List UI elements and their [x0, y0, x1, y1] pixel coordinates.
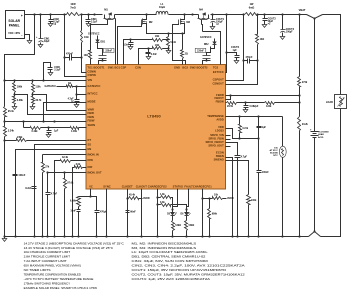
svg-text:32.4k: 32.4k: [62, 156, 69, 159]
svg-text:NTC: NTC: [273, 155, 278, 157]
svg-text:BOOST1: BOOST1: [93, 65, 105, 69]
wire FAULT: [185, 189, 188, 211]
svg-text:EXTVCC: EXTVCC: [213, 70, 224, 74]
svg-text:45.4k: 45.4k: [129, 194, 136, 197]
svg-text:SRVO_FBOUT: SRVO_FBOUT: [205, 140, 224, 144]
svg-text:100k: 100k: [251, 199, 257, 202]
wire to load: [323, 15, 341, 95]
wire EXTVCC: [225, 15, 227, 73]
wire VC: [89, 189, 91, 198]
svg-text:M1, M2: INFINEON BSC026N04LS: M1, M2: INFINEON BSC026N04LS: [132, 241, 197, 245]
svg-text:CSN: CSN: [135, 65, 141, 69]
wire VBB line: [3, 79, 86, 81]
wire FBOUT stub: [226, 94, 232, 99]
svg-text:INTVCC: INTVCC: [88, 91, 98, 95]
wire top bus after shunt: [63, 13, 102, 15]
capacitor 1uF fbin: [46, 126, 59, 137]
resistor 549R d6: [185, 216, 195, 237]
resistor 97.6k: [64, 173, 74, 237]
svg-text:CSP: CSP: [121, 65, 127, 69]
svg-text:LOAD: LOAD: [326, 101, 333, 104]
node VBAT: [299, 8, 323, 20]
svg-text:SRVO_FBIN: SRVO_FBIN: [208, 136, 223, 140]
capacitor 470nF input sense: [63, 53, 82, 61]
capacitor COUT2 10uF x2: [262, 15, 276, 28]
svg-text:GATEVCC: GATEVCC: [44, 85, 56, 88]
svg-text:909k: 909k: [212, 213, 218, 216]
svg-text:AVDD: AVDD: [227, 197, 234, 200]
resistor 6.49k vc: [70, 197, 90, 207]
svg-text:97.6k: 97.6k: [67, 182, 74, 185]
svg-text:FBIW: FBIW: [88, 119, 95, 123]
resistor 45.4k clkdet: [128, 194, 150, 200]
transistor M2: [142, 15, 154, 27]
resistor 26.5k FBOW: [226, 102, 246, 109]
svg-text:33µF: 33µF: [44, 40, 50, 43]
LED D5: [167, 210, 176, 216]
svg-text:6mΩ: 6mΩ: [249, 6, 255, 9]
svg-text:5mΩ: 5mΩ: [170, 41, 175, 44]
wire SWENO: [226, 161, 249, 195]
svg-text:10nF: 10nF: [70, 210, 76, 213]
IC right pin labels: [205, 70, 224, 162]
svg-text:549Ω: 549Ω: [175, 224, 181, 227]
svg-text:4.7µF: 4.7µF: [241, 156, 248, 159]
wire VOUT bus after shunt: [256, 13, 306, 15]
svg-text:6.49k: 6.49k: [32, 130, 39, 133]
wire SWEN: [226, 158, 233, 237]
resistor 23.2k: [298, 117, 309, 237]
capacitor CIN3 2.2uF: [86, 15, 98, 27]
svg-text:4Ω: 4Ω: [68, 82, 71, 85]
svg-text:26.5k: 26.5k: [227, 105, 234, 108]
svg-text:SW1: SW1: [108, 65, 114, 69]
svg-text:FBIR: FBIR: [88, 111, 94, 115]
svg-text:CSPOUT: CSPOUT: [213, 78, 225, 82]
svg-text:NO TIMER LIMITS: NO TIMER LIMITS: [24, 268, 51, 272]
wire VIN to left rail: [5, 15, 35, 81]
capacitor 0.082uF: [243, 101, 259, 112]
resistor 4R gatevcc: [44, 82, 86, 88]
wire CSNOUT: [226, 61, 258, 85]
svg-text:36.7k: 36.7k: [35, 99, 42, 102]
svg-text:+: +: [21, 14, 23, 18]
svg-text:10Ω: 10Ω: [84, 55, 89, 57]
svg-text:GATEVCC: GATEVCC: [88, 84, 101, 88]
wire SS: [35, 145, 87, 237]
wire divider mid: [298, 87, 300, 117]
diode DB1 with GATEVCC: [88, 33, 106, 56]
resistor 2R: [181, 34, 188, 65]
battery flooded lead acid: [310, 19, 329, 232]
svg-text:6.38k: 6.38k: [17, 99, 24, 102]
svg-text:CHARGECFG1: CHARGECFG1: [193, 184, 212, 188]
wire CHARGECFG2: [156, 189, 158, 237]
resistor 6.49k: [24, 122, 49, 134]
capacitor COUT4 1uF: [227, 46, 240, 63]
svg-text:1µF: 1µF: [262, 126, 267, 129]
svg-text:CSNIN: CSNIN: [88, 69, 96, 73]
svg-text:SW2: SW2: [190, 65, 196, 69]
svg-text:ECON: ECON: [216, 151, 224, 155]
svg-text:CSNOUT: CSNOUT: [212, 81, 224, 85]
svg-text:GATEVCC: GATEVCC: [88, 33, 100, 36]
wire VINR tap: [33, 95, 87, 111]
resistor 10k avdd: [203, 194, 234, 200]
svg-text:1µF: 1µF: [54, 130, 59, 133]
capacitor 220nF boost2: [195, 47, 210, 65]
svg-text:GATEVCC: GATEVCC: [200, 36, 212, 39]
svg-text:GND: GND: [174, 65, 180, 69]
note block left: [24, 241, 125, 290]
wire IMON_OUT: [46, 171, 86, 173]
resistor 100k SWENO: [247, 195, 257, 237]
svg-text:M1: M1: [104, 8, 108, 12]
wire load return: [321, 109, 341, 237]
svg-text:COUT4: 1µF, 25V AVX 12063C105K: COUT4: 1µF, 25V AVX 12063C105KAT2A: [132, 277, 212, 281]
svg-text:FAULT: FAULT: [184, 184, 193, 188]
svg-text:2.8A TRICKLE CURRENT LIMIT: 2.8A TRICKLE CURRENT LIMIT: [24, 255, 71, 259]
svg-text:CIN2, CIN3, CIN4: 2.2µF, 100V,: CIN2, CIN3, CIN4: 2.2µF, 100V, AVX 12101…: [132, 264, 247, 268]
resistor output shunt 6mOhm: [245, 3, 259, 16]
capacitor COUT3 100uF: [280, 15, 294, 40]
resistor 32.4k IOW: [55, 156, 87, 236]
capacitor 66nF: [126, 211, 137, 214]
svg-text:CSPIN: CSPIN: [88, 73, 96, 77]
svg-text:11.5k: 11.5k: [242, 127, 249, 130]
wire IMON_IN: [43, 154, 87, 156]
svg-text:3.3nF: 3.3nF: [151, 54, 158, 56]
IC left pin labels: [88, 69, 103, 174]
resistor 909k: [208, 199, 218, 237]
svg-text:10Ω: 10Ω: [155, 45, 160, 47]
svg-text:95.1k: 95.1k: [8, 110, 15, 113]
wire TEMPSENSE: [226, 115, 283, 117]
capacitor 100nF: [257, 139, 270, 237]
svg-text:IOR: IOR: [88, 165, 93, 169]
capacitor 220nF boost1: [99, 48, 115, 64]
svg-text:4.7nF: 4.7nF: [51, 193, 58, 196]
svg-text:TG1: TG1: [87, 65, 93, 69]
svg-text:RT: RT: [88, 138, 92, 142]
svg-text:23.2k: 23.2k: [302, 123, 309, 126]
transistor M4: [198, 8, 210, 20]
wire SW1 segment: [115, 13, 157, 15]
wire CLKOUT: [141, 189, 143, 237]
wire servo stubs: [226, 136, 231, 147]
svg-text:549Ω: 549Ω: [189, 224, 195, 227]
resistor 36.7k: [30, 97, 42, 110]
svg-text:COUT1: 150µF, 35V NICHICON UPJ: COUT1: 150µF, 35V NICHICON UPJ1V151MPD6T…: [132, 268, 228, 272]
svg-text:CLKOUT: CLKOUT: [136, 184, 148, 188]
junction dots ground bus: [3, 235, 300, 237]
solar panel source: [6, 11, 25, 39]
capacitor 8.2nF ss: [25, 187, 36, 191]
svg-text:M3: M3: [186, 20, 190, 24]
resistor 5mOhm current sense: [166, 34, 176, 54]
svg-text:220nF: 220nF: [105, 51, 112, 53]
svg-text:CLKDET: CLKDET: [122, 184, 133, 188]
wire BG2 gate M3: [173, 24, 186, 65]
capacitor 470nF output sense: [242, 15, 258, 64]
svg-text:LT8490: LT8490: [147, 114, 161, 119]
IC U1 LT8490 charge controller body: [86, 65, 226, 190]
resistor input shunt 7mOhm: [67, 3, 81, 16]
svg-text:DB1: DB1: [101, 41, 106, 43]
svg-text:220nF: 220nF: [197, 51, 204, 53]
resistor 10R CSN filter: [139, 45, 169, 65]
svg-text:3.3nF: 3.3nF: [123, 44, 130, 46]
svg-text:M3, M4: INFINEON BSC046N04LS: M3, M4: INFINEON BSC046N04LS: [132, 246, 197, 250]
resistor 10R input sense filter: [81, 15, 89, 73]
svg-text:M2: M2: [149, 20, 153, 24]
svg-text:SS: SS: [88, 143, 92, 147]
resistor 274k: [298, 15, 308, 87]
resistor 95.1k left rail: [3, 81, 14, 127]
svg-text:VBAT: VBAT: [299, 8, 306, 12]
svg-text:AVDD: AVDD: [143, 197, 150, 200]
inductor L1 10uH: [156, 3, 168, 15]
capacitor 470pF vc: [91, 197, 108, 237]
svg-text:PANEL: PANEL: [9, 23, 20, 27]
capacitor 10nF vc: [70, 207, 80, 237]
resistor 3.0k IOR: [73, 163, 87, 237]
svg-text:4.7µF: 4.7µF: [68, 97, 75, 100]
wire SW1 to pin: [115, 19, 117, 65]
svg-text:FBOUT: FBOUT: [215, 96, 225, 100]
svg-text:8.2nF: 8.2nF: [25, 187, 32, 190]
svg-text:TEMPERATURE COMPENSATION ENABL: TEMPERATURE COMPENSATION ENABLED: [24, 273, 82, 277]
capacitor 4.7uF AVDD: [226, 143, 248, 237]
thermistor 10k NTC: [270, 117, 287, 237]
capacitor 4.7nF: [46, 173, 58, 237]
svg-text:249k: 249k: [17, 136, 23, 139]
svg-text:1.3k: 1.3k: [160, 193, 165, 196]
svg-text:7mΩ: 7mΩ: [70, 6, 76, 9]
resistor 110k: [31, 81, 41, 97]
svg-text:27k: 27k: [45, 166, 50, 169]
wire STATUS: [171, 189, 177, 211]
svg-text:470nF: 470nF: [66, 53, 73, 56]
svg-text:110k: 110k: [35, 86, 41, 89]
wire top bus VIN segment: [25, 13, 67, 15]
resistor 1.3k: [158, 193, 173, 210]
svg-text:10Ω: 10Ω: [155, 36, 160, 38]
svg-text:3.24k: 3.24k: [8, 130, 15, 133]
resistor 3.24k left rail: [3, 127, 14, 237]
svg-text:175kHz SWITCHING FREQUENCY: 175kHz SWITCHING FREQUENCY: [24, 281, 71, 285]
wire EN: [16, 150, 87, 237]
svg-text:198k: 198k: [17, 86, 23, 89]
svg-text:1µF: 1µF: [233, 49, 238, 52]
svg-text:VDD: VDD: [218, 125, 224, 129]
svg-text:SYNC: SYNC: [103, 184, 111, 188]
capacitor 3.3nF CSN: [146, 49, 158, 60]
wire CHARGECFG1: [201, 189, 203, 237]
svg-text:0.082µF: 0.082µF: [250, 105, 259, 108]
wire CSPOUT: [226, 61, 244, 81]
capacitor COUT1 150uF x2: [210, 13, 225, 29]
svg-text:AVDD: AVDD: [216, 118, 223, 122]
wire FBOR: [226, 95, 300, 97]
svg-text:SHDN: SHDN: [88, 123, 96, 127]
svg-text:2.2µF: 2.2µF: [91, 20, 98, 23]
note block right: [132, 241, 247, 281]
capacitor CIN1 33uF: [36, 15, 50, 48]
svg-text:TG2: TG2: [213, 65, 219, 69]
diode DB2 with GATEVCC: [200, 36, 217, 49]
svg-text:LEAD: LEAD: [318, 133, 324, 136]
ground solar panel return: [25, 35, 32, 44]
svg-text:EXAMPLE SOLAR PANEL: SHARP NT-: EXAMPLE SOLAR PANEL: SHARP NT-175UC1 175…: [24, 286, 97, 290]
resistor 3.3k: [158, 201, 187, 210]
IC top pin labels: [87, 65, 218, 69]
svg-text:2.2µF: 2.2µF: [54, 69, 61, 72]
svg-text:7.2A INPUT CURRENT LIMIT: 7.2A INPUT CURRENT LIMIT: [24, 259, 67, 263]
svg-text:BG2: BG2: [182, 65, 188, 69]
svg-text:470nF: 470nF: [246, 56, 253, 59]
resistor 1.00k: [49, 127, 87, 134]
svg-text:ACID: ACID: [318, 136, 324, 139]
svg-text:10k: 10k: [214, 194, 219, 197]
svg-text:MODE: MODE: [88, 100, 96, 104]
svg-text:10Ω: 10Ω: [84, 36, 89, 39]
svg-text:IMON_OUT: IMON_OUT: [88, 170, 103, 174]
svg-text:DB2: DB2: [204, 44, 209, 46]
svg-text:CHARGECFG2: CHARGECFG2: [148, 184, 167, 188]
wire ground bus: [5, 236, 309, 238]
svg-text:L1: 10µH COILCRAFT SER2918H-10: L1: 10µH COILCRAFT SER2918H-103KL: [132, 250, 209, 254]
svg-text:BOOST2: BOOST2: [196, 65, 208, 69]
svg-text:SWENO: SWENO: [214, 158, 224, 162]
load box: [326, 95, 347, 109]
svg-text:3.3k: 3.3k: [160, 201, 165, 204]
svg-text:M4: M4: [199, 8, 203, 12]
ground main: [2, 237, 7, 242]
svg-text:SRVO_IOUT: SRVO_IOUT: [208, 143, 224, 147]
svg-text:10µH: 10µH: [159, 6, 165, 9]
capacitor 100nF rt: [13, 174, 26, 177]
svg-text:TEMPSENSE: TEMPSENSE: [207, 114, 224, 118]
svg-text:124k: 124k: [266, 105, 272, 108]
resistor 6.38k: [12, 97, 23, 110]
wire BG1 gate M2: [118, 24, 142, 65]
svg-text:14.27V STAGE 2 (ABSORPTION) CH: 14.27V STAGE 2 (ABSORPTION) CHARGE VOLTA…: [24, 241, 125, 245]
svg-text:–20°C TO 50°C BATTERY TEMPERAT: –20°C TO 50°C BATTERY TEMPERATURE RANGE: [24, 277, 94, 281]
resistor 249k: [5, 136, 87, 142]
capacitor CIN4 2.2uF: [44, 63, 62, 81]
svg-text:VINR: VINR: [88, 107, 94, 111]
svg-text:3.0k: 3.0k: [76, 163, 81, 166]
svg-text:STATUS: STATUS: [173, 184, 184, 188]
svg-text:COUT2, COUT3: 10µF, 35V, MURAT: COUT2, COUT3: 10µF, 35V, MURATA GRM32ER7…: [132, 273, 246, 277]
svg-text:100nF: 100nF: [262, 171, 269, 174]
capacitor CIN2 2.2uF x2: [48, 15, 60, 27]
capacitor 1uF LDO: [257, 117, 267, 139]
node battery return chevron: [309, 230, 321, 236]
resistor 10R output sense: [256, 15, 265, 61]
svg-text:2Ω: 2Ω: [185, 53, 188, 56]
wire SW2 segment: [169, 13, 199, 15]
wire SYNC: [106, 189, 108, 237]
svg-text:FBIN: FBIN: [88, 115, 94, 119]
transistor M3: [179, 15, 191, 27]
svg-text:FBOW: FBOW: [216, 100, 225, 104]
wire MODE: [44, 103, 87, 122]
svg-text:IOW: IOW: [88, 158, 94, 162]
svg-text:SRVO_VIN: SRVO_VIN: [210, 133, 224, 137]
wire FBIR tap: [15, 95, 87, 115]
wire VOUT bus: [211, 13, 245, 15]
wire source rail: [147, 27, 185, 35]
svg-text:100µF: 100µF: [286, 31, 293, 34]
svg-text:100nF: 100nF: [18, 174, 25, 177]
svg-text:EN: EN: [88, 147, 92, 151]
resistor 124k FBOW: [246, 102, 300, 109]
svg-text:274k: 274k: [302, 81, 308, 84]
wire VDD return: [226, 129, 260, 140]
svg-text:6.49k: 6.49k: [70, 200, 77, 203]
wire CSPIN sense: [65, 15, 87, 77]
svg-text:LDO33: LDO33: [215, 129, 224, 133]
wire TG2 gate drive: [202, 20, 221, 65]
svg-text:CIN1: 33µF, 63V, SUN CON 63HVH: CIN1: 33µF, 63V, SUN CON 63HVH33M: [132, 259, 209, 263]
LED D6: [180, 210, 190, 216]
wire FBIW line: [5, 120, 87, 122]
svg-text:66nF: 66nF: [130, 211, 136, 214]
svg-text:SWEN: SWEN: [216, 154, 224, 158]
wire TG1 gate drive: [84, 20, 108, 65]
svg-text:VC: VC: [89, 184, 93, 188]
capacitor 3.3nF CSP: [123, 40, 133, 50]
svg-text:VOC <65V: VOC <65V: [8, 32, 20, 35]
svg-text:1.00k: 1.00k: [71, 130, 78, 133]
svg-text:FLOODED: FLOODED: [318, 132, 329, 134]
resistor 198k: [13, 81, 23, 97]
resistor 27k: [42, 155, 50, 237]
svg-text:65V MAXIMUM PANEL VOLTAGE (VMA: 65V MAXIMUM PANEL VOLTAGE (VMAX): [24, 264, 81, 268]
resistor 549R d5: [172, 216, 182, 237]
svg-text:VIN: VIN: [88, 78, 93, 82]
svg-text:10Ω: 10Ω: [260, 38, 265, 41]
svg-text:10A CHARGING CURRENT LIMIT: 10A CHARGING CURRENT LIMIT: [24, 250, 71, 254]
IC bottom pin labels: [89, 184, 212, 188]
capacitor 4.7uF x2 intvcc: [68, 87, 87, 108]
transistor M1: [104, 8, 116, 20]
resistor 11.5k: [239, 117, 249, 139]
svg-text:13.4V STAGE 3 (FLOAT) CHARGE V: 13.4V STAGE 3 (FLOAT) CHARGE VOLTAGE (VS…: [24, 246, 114, 250]
resistor 10R CSP filter: [124, 36, 169, 64]
wire CLKDET: [126, 189, 128, 237]
svg-text:DB1, DB2: CENTRAL SEMI CMMR1U-: DB1, DB2: CENTRAL SEMI CMMR1U-02: [132, 255, 206, 259]
svg-text:IMON_IN: IMON_IN: [88, 152, 99, 156]
